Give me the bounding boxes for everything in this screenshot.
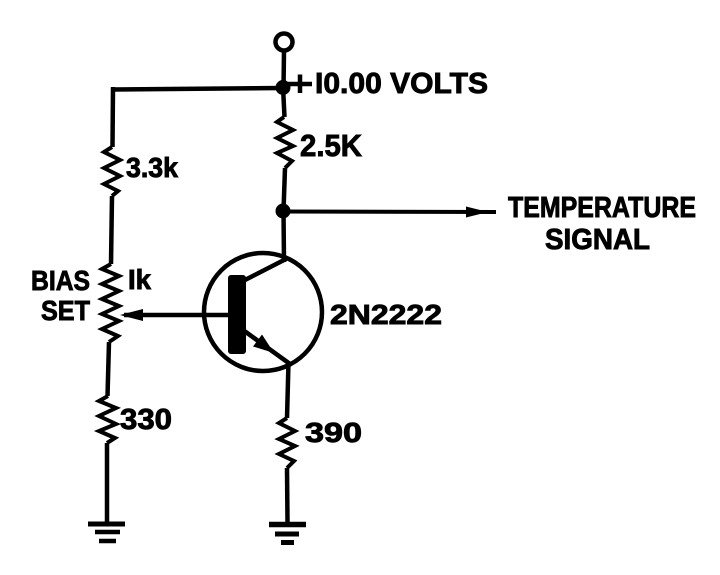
- plus sign: [288, 75, 312, 94]
- node collector dot: [276, 204, 291, 219]
- svg-text:330: 330: [120, 404, 172, 436]
- svg-text:TEMPERATURE: TEMPERATURE: [508, 192, 696, 224]
- transistor Q1 circle: [204, 253, 322, 371]
- wire collector node to transistor: [281, 211, 286, 262]
- wire terminal to rail: [281, 51, 286, 88]
- ground left: [88, 524, 125, 541]
- wire emitter to 390: [287, 362, 289, 418]
- resistor R1 3.3k: [104, 147, 120, 196]
- svg-text:3.3k: 3.3k: [126, 152, 178, 183]
- emitter arrowhead: [253, 335, 274, 354]
- svg-text:2.5K: 2.5K: [300, 128, 363, 163]
- transistor emitter lead: [243, 330, 290, 364]
- svg-text:2N2222: 2N2222: [330, 299, 442, 330]
- wire temperature signal: [283, 210, 496, 215]
- supply terminal circle: [276, 34, 293, 51]
- svg-text:I0.00 VOLTS: I0.00 VOLTS: [315, 68, 488, 100]
- wire 390 to ground: [285, 468, 290, 522]
- ground right: [269, 525, 306, 543]
- svg-text:Ik: Ik: [128, 264, 151, 295]
- resistor R5 390: [279, 418, 295, 468]
- svg-text:SET: SET: [41, 295, 90, 326]
- transistor collector lead: [243, 259, 286, 281]
- svg-text:390: 390: [305, 417, 362, 448]
- resistor R3 330: [99, 396, 116, 443]
- wire rail to 2.5K: [283, 87, 285, 117]
- wire left branch upper: [110, 87, 115, 147]
- svg-text:SIGNAL: SIGNAL: [545, 224, 650, 256]
- wire 330 to ground: [105, 443, 110, 522]
- signal arrowhead: [466, 207, 488, 218]
- wire pot to 330: [108, 342, 110, 396]
- wiper arrow wire to base: [124, 313, 232, 318]
- svg-text:BIAS: BIAS: [31, 265, 90, 296]
- wire 2.5K to collector node: [284, 168, 286, 211]
- potentiometer R2 1k: [102, 264, 119, 342]
- transistor base bar: [228, 275, 246, 354]
- resistor R4 2.5K: [277, 117, 293, 168]
- wire 3.3k to pot: [111, 196, 112, 264]
- node junction dot at +10V rail: [276, 80, 291, 95]
- wiper arrowhead: [120, 309, 143, 321]
- wire top rail: [113, 88, 283, 90]
